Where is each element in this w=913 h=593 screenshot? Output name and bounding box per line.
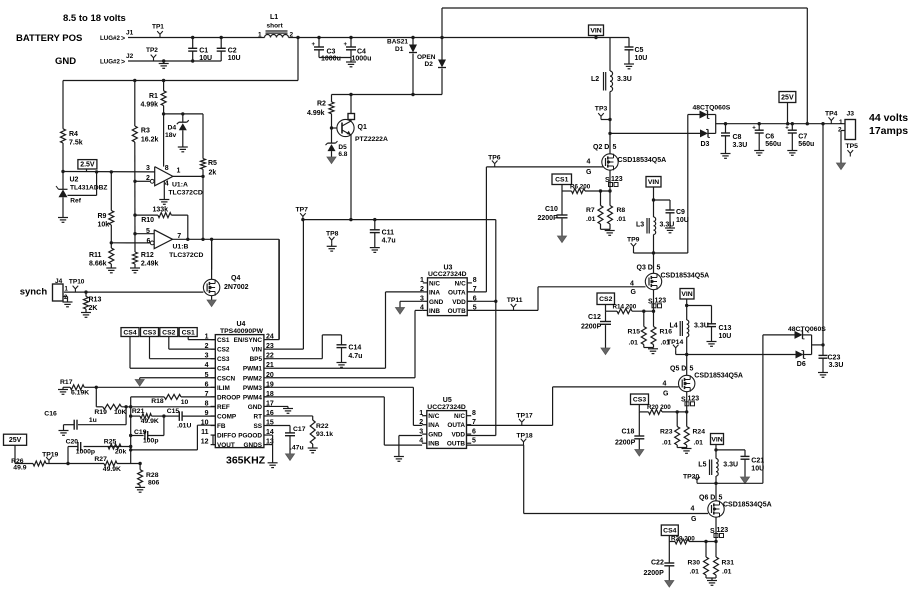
svg-text:.47u: .47u	[290, 445, 304, 452]
svg-text:4.99k: 4.99k	[307, 110, 325, 117]
svg-text:560u: 560u	[798, 141, 814, 148]
svg-text:25V: 25V	[9, 437, 22, 444]
svg-text:10: 10	[181, 399, 189, 406]
svg-text:R14 200: R14 200	[613, 304, 637, 311]
svg-text:48CTQ060S: 48CTQ060S	[788, 326, 826, 333]
svg-text:C17: C17	[293, 426, 306, 433]
svg-text:18v: 18v	[165, 132, 177, 139]
svg-text:G: G	[691, 516, 697, 523]
svg-text:49.9K: 49.9K	[141, 418, 159, 425]
svg-text:TP8: TP8	[326, 231, 339, 238]
svg-text:CS3: CS3	[143, 329, 156, 336]
svg-text:3: 3	[146, 165, 150, 172]
svg-text:C4: C4	[357, 49, 366, 56]
svg-text:RT: RT	[253, 413, 262, 420]
svg-text:Q6 D: Q6 D	[699, 495, 715, 502]
svg-text:VIN: VIN	[251, 347, 262, 354]
svg-text:J1: J1	[126, 30, 134, 37]
svg-text:R2: R2	[317, 100, 326, 107]
svg-text:+: +	[344, 42, 348, 48]
svg-text:INA: INA	[428, 422, 439, 429]
svg-text:C15: C15	[167, 408, 180, 415]
svg-text:TP17: TP17	[516, 413, 532, 420]
svg-text:10U: 10U	[751, 466, 764, 473]
svg-text:C16: C16	[44, 411, 57, 418]
svg-text:SS: SS	[253, 423, 262, 430]
svg-text:4.99k: 4.99k	[141, 102, 159, 109]
svg-text:3.3U: 3.3U	[660, 222, 675, 229]
svg-text:4.7u: 4.7u	[348, 353, 362, 360]
svg-text:TPS40090PW: TPS40090PW	[220, 328, 264, 335]
svg-text:R11: R11	[89, 252, 102, 259]
svg-text:.01U: .01U	[177, 423, 191, 430]
svg-text:3.3U: 3.3U	[829, 362, 844, 369]
svg-text:C5: C5	[635, 47, 644, 54]
svg-text:100p: 100p	[143, 438, 159, 445]
svg-text:8: 8	[473, 277, 477, 284]
svg-text:6.8: 6.8	[338, 151, 347, 158]
svg-text:N/C: N/C	[455, 280, 466, 287]
svg-text:+: +	[752, 126, 756, 132]
svg-text:TP19: TP19	[42, 451, 58, 458]
svg-text:GND: GND	[429, 299, 444, 306]
svg-text:U4: U4	[237, 321, 246, 328]
svg-text:D5: D5	[338, 144, 347, 151]
svg-text:5: 5	[472, 437, 476, 444]
svg-text:10U: 10U	[228, 55, 241, 62]
svg-text:BATTERY POS: BATTERY POS	[16, 33, 82, 44]
svg-text:.01: .01	[629, 340, 639, 347]
svg-text:R29 200: R29 200	[671, 535, 695, 542]
svg-text:2k: 2k	[209, 170, 217, 177]
svg-text:TP14: TP14	[667, 339, 683, 346]
svg-text:TP9: TP9	[627, 237, 640, 244]
svg-text:2.5V: 2.5V	[80, 162, 95, 169]
svg-text:4: 4	[630, 281, 634, 288]
svg-text:R25: R25	[104, 438, 117, 445]
svg-text:R22: R22	[316, 423, 329, 430]
svg-text:8.66k: 8.66k	[89, 261, 107, 268]
svg-text:.01: .01	[690, 569, 700, 576]
svg-text:VIN: VIN	[711, 436, 722, 443]
svg-text:3.3U: 3.3U	[733, 142, 748, 149]
svg-text:R4: R4	[69, 131, 78, 138]
svg-text:R24: R24	[693, 429, 706, 436]
svg-text:49.9K: 49.9K	[103, 466, 121, 473]
svg-text:R7: R7	[586, 207, 595, 214]
svg-text:2200P: 2200P	[538, 215, 559, 222]
svg-text:R23: R23	[660, 429, 673, 436]
svg-text:+: +	[312, 42, 316, 48]
svg-text:6: 6	[472, 428, 476, 435]
svg-text:CSD18534Q5A: CSD18534Q5A	[661, 273, 710, 280]
svg-text:44 volts: 44 volts	[869, 112, 908, 124]
svg-text:1: 1	[420, 277, 424, 284]
svg-text:123: 123	[717, 527, 729, 534]
svg-text:R16: R16	[660, 329, 673, 336]
svg-text:Q1: Q1	[358, 124, 367, 131]
svg-text:VOUT: VOUT	[217, 442, 235, 449]
svg-text:.01: .01	[586, 216, 596, 223]
svg-text:1000p: 1000p	[76, 449, 95, 456]
svg-text:L3: L3	[636, 222, 644, 229]
svg-text:L2: L2	[591, 76, 599, 83]
svg-text:1: 1	[177, 168, 181, 175]
svg-text:G: G	[631, 289, 637, 296]
svg-text:DIFFO: DIFFO	[217, 433, 236, 440]
svg-text:OPEN: OPEN	[417, 54, 436, 61]
svg-text:C14: C14	[348, 345, 361, 352]
svg-text:.01: .01	[662, 440, 672, 447]
svg-text:U1:A: U1:A	[172, 181, 188, 188]
svg-text:TP1: TP1	[152, 24, 164, 31]
svg-text:C22: C22	[651, 560, 664, 567]
svg-text:CSD18534Q5A: CSD18534Q5A	[618, 157, 667, 164]
svg-text:OUTA: OUTA	[448, 289, 466, 296]
svg-text:COMP: COMP	[217, 413, 237, 420]
svg-text:VDD: VDD	[452, 432, 466, 439]
svg-text:OUTB: OUTB	[448, 308, 466, 315]
svg-text:7.5k: 7.5k	[69, 140, 83, 147]
svg-text:10U: 10U	[676, 217, 689, 224]
svg-text:EN/SYNC: EN/SYNC	[234, 337, 263, 344]
svg-text:C19: C19	[134, 429, 147, 436]
svg-text:ILIM: ILIM	[217, 385, 230, 392]
svg-text:D2: D2	[425, 61, 434, 68]
svg-text:C3: C3	[327, 49, 336, 56]
svg-text:2200P: 2200P	[581, 324, 602, 331]
svg-text:synch: synch	[20, 286, 48, 297]
svg-text:1u: 1u	[89, 417, 97, 424]
svg-text:PTZ2222A: PTZ2222A	[355, 136, 388, 143]
svg-text:3.3U: 3.3U	[694, 323, 709, 330]
svg-text:U1:B: U1:B	[173, 244, 189, 251]
svg-text:Q4: Q4	[231, 275, 240, 282]
svg-text:BAS21: BAS21	[387, 39, 408, 46]
svg-text:R5: R5	[208, 160, 217, 167]
svg-text:16.2k: 16.2k	[141, 137, 159, 144]
svg-text:CS4: CS4	[217, 366, 230, 373]
svg-text:2.49k: 2.49k	[141, 261, 159, 268]
svg-text:INA: INA	[429, 289, 440, 296]
svg-text:UCC27324D: UCC27324D	[428, 271, 467, 278]
svg-text:CSD18534Q5A: CSD18534Q5A	[694, 373, 743, 380]
svg-text:LUG#2: LUG#2	[100, 35, 121, 42]
svg-text:8: 8	[165, 165, 169, 172]
svg-text:10U: 10U	[719, 333, 732, 340]
svg-text:5: 5	[613, 144, 617, 151]
svg-text:4.7u: 4.7u	[382, 238, 396, 245]
svg-text:8: 8	[472, 410, 476, 417]
svg-text:D4: D4	[168, 125, 177, 132]
svg-text:G: G	[586, 169, 592, 176]
svg-text:R30: R30	[688, 560, 701, 567]
svg-text:CSCN: CSCN	[217, 375, 235, 382]
svg-text:>: >	[121, 36, 125, 43]
svg-text:L1: L1	[270, 14, 278, 21]
svg-text:10k: 10k	[98, 222, 110, 229]
svg-text:1000u: 1000u	[321, 56, 341, 63]
svg-text:D3: D3	[701, 141, 710, 148]
svg-text:D6: D6	[797, 361, 806, 368]
svg-text:1: 1	[419, 410, 423, 417]
svg-text:N/C: N/C	[428, 413, 439, 420]
svg-text:10K: 10K	[114, 409, 127, 416]
svg-text:2K: 2K	[89, 305, 98, 312]
svg-text:PWM3: PWM3	[243, 385, 263, 392]
svg-text:10U: 10U	[635, 55, 648, 62]
svg-text:4: 4	[419, 437, 423, 444]
svg-text:TP10: TP10	[69, 279, 85, 286]
svg-text:4: 4	[663, 380, 667, 387]
svg-text:VIN: VIN	[590, 28, 601, 35]
svg-text:TP18: TP18	[516, 433, 532, 440]
svg-text:TP5: TP5	[846, 143, 859, 150]
svg-text:CS4: CS4	[123, 329, 136, 336]
svg-text:2200P: 2200P	[644, 570, 665, 577]
svg-text:G: G	[663, 391, 669, 398]
svg-text:OUTA: OUTA	[447, 422, 465, 429]
svg-text:TP6: TP6	[488, 154, 501, 161]
svg-text:R1: R1	[149, 93, 158, 100]
svg-text:INB: INB	[428, 441, 439, 448]
svg-text:Ref: Ref	[70, 198, 81, 205]
svg-text:PWM2: PWM2	[243, 375, 263, 382]
svg-text:TP11: TP11	[507, 297, 523, 304]
svg-text:U2: U2	[70, 177, 79, 184]
svg-text:R8: R8	[617, 207, 626, 214]
svg-text:CS2: CS2	[599, 296, 612, 303]
svg-text:5: 5	[690, 366, 694, 373]
svg-text:TP2: TP2	[146, 47, 158, 54]
svg-text:365KHZ: 365KHZ	[226, 455, 266, 467]
svg-text:BP5: BP5	[250, 356, 263, 363]
svg-text:12: 12	[201, 439, 209, 446]
svg-text:CS1: CS1	[182, 329, 195, 336]
svg-text:6: 6	[147, 238, 151, 245]
svg-text:3.3U: 3.3U	[723, 462, 738, 469]
svg-text:806: 806	[148, 480, 160, 487]
svg-text:R9: R9	[98, 213, 107, 220]
svg-text:REF: REF	[217, 404, 230, 411]
svg-text:49.9: 49.9	[13, 465, 26, 472]
svg-text:OUTB: OUTB	[447, 441, 465, 448]
svg-text:R28: R28	[146, 472, 159, 479]
svg-text:R19: R19	[94, 409, 107, 416]
svg-text:R27: R27	[94, 456, 107, 463]
svg-text:+: +	[785, 126, 789, 132]
svg-text:FB: FB	[217, 423, 226, 430]
svg-text:.01: .01	[617, 216, 627, 223]
svg-text:C1: C1	[199, 48, 208, 55]
svg-text:4: 4	[587, 159, 591, 166]
svg-text:48CTQ060S: 48CTQ060S	[693, 105, 731, 112]
svg-text:>: >	[121, 59, 125, 66]
svg-text:C11: C11	[382, 230, 395, 237]
svg-text:C9: C9	[676, 209, 685, 216]
svg-text:L5: L5	[698, 462, 706, 469]
svg-text:VIN: VIN	[648, 179, 659, 186]
svg-text:6.19K: 6.19K	[71, 390, 89, 397]
svg-text:Q5 D: Q5 D	[670, 366, 686, 373]
svg-text:TP4: TP4	[825, 111, 838, 118]
svg-text:5: 5	[657, 265, 661, 272]
svg-text:560u: 560u	[765, 141, 781, 148]
svg-text:GNDS: GNDS	[244, 442, 263, 449]
svg-text:2N7002: 2N7002	[224, 284, 249, 291]
svg-text:1: 1	[839, 119, 843, 126]
svg-text:CSD18534Q5A: CSD18534Q5A	[723, 502, 772, 509]
svg-text:4: 4	[165, 180, 169, 187]
svg-text:R17: R17	[60, 379, 73, 386]
svg-text:1: 1	[258, 32, 262, 39]
svg-text:R3: R3	[141, 128, 150, 135]
svg-text:.01: .01	[722, 569, 732, 576]
svg-text:PGOOD: PGOOD	[238, 433, 262, 440]
svg-text:TP3: TP3	[595, 106, 608, 113]
svg-text:8.5 to 18 volts: 8.5 to 18 volts	[63, 13, 126, 24]
svg-text:93.1k: 93.1k	[316, 431, 333, 438]
svg-text:CS3: CS3	[217, 356, 230, 363]
svg-text:C10: C10	[545, 206, 558, 213]
svg-text:C20: C20	[66, 438, 79, 445]
svg-text:N/C: N/C	[454, 413, 465, 420]
svg-text:LUG#2: LUG#2	[100, 59, 121, 66]
svg-text:J2: J2	[126, 53, 134, 60]
svg-text:GND: GND	[428, 432, 443, 439]
svg-text:INB: INB	[429, 308, 440, 315]
svg-text:DROOP: DROOP	[217, 394, 241, 401]
svg-text:3: 3	[419, 428, 423, 435]
svg-text:R21: R21	[132, 408, 145, 415]
svg-text:GND: GND	[248, 404, 263, 411]
svg-text:R6 200: R6 200	[570, 184, 591, 191]
svg-text:C13: C13	[719, 325, 732, 332]
svg-text:TLC372CD: TLC372CD	[169, 252, 203, 259]
svg-text:C23: C23	[828, 355, 841, 362]
svg-text:J4: J4	[55, 278, 63, 285]
svg-text:Q2 D: Q2 D	[593, 144, 609, 151]
svg-text:CS3: CS3	[633, 397, 646, 404]
svg-text:TL431ADBZ: TL431ADBZ	[70, 185, 107, 192]
svg-text:R13: R13	[89, 297, 102, 304]
svg-text:VDD: VDD	[452, 299, 466, 306]
svg-text:UCC27324D: UCC27324D	[427, 404, 466, 411]
svg-text:TLC372CD: TLC372CD	[168, 190, 202, 197]
svg-text:C7: C7	[798, 134, 807, 141]
svg-text:20k: 20k	[115, 449, 127, 456]
svg-text:CS1: CS1	[217, 337, 230, 344]
svg-text:4: 4	[691, 506, 695, 513]
svg-text:short: short	[267, 23, 284, 30]
svg-text:10U: 10U	[199, 55, 212, 62]
svg-text:CS1: CS1	[555, 177, 568, 184]
svg-text:L4: L4	[670, 323, 678, 330]
svg-text:C12: C12	[588, 314, 601, 321]
svg-text:123: 123	[611, 176, 623, 183]
svg-text:25V: 25V	[781, 94, 794, 101]
svg-text:TP7: TP7	[296, 207, 309, 214]
svg-text:R15: R15	[628, 329, 641, 336]
svg-text:PWM4: PWM4	[243, 394, 263, 401]
svg-text:PWM1: PWM1	[243, 366, 263, 373]
svg-text:2200P: 2200P	[615, 440, 636, 447]
svg-text:133k: 133k	[153, 207, 169, 214]
svg-text:R31: R31	[722, 560, 735, 567]
svg-text:2: 2	[290, 32, 294, 39]
svg-text:3.3U: 3.3U	[617, 76, 632, 83]
svg-text:Q3 D: Q3 D	[637, 265, 653, 272]
svg-text:C6: C6	[765, 134, 774, 141]
svg-text:CS2: CS2	[217, 347, 230, 354]
svg-text:CS4: CS4	[663, 528, 676, 535]
svg-text:C8: C8	[733, 134, 742, 141]
svg-text:5: 5	[719, 495, 723, 502]
svg-text:C2: C2	[228, 48, 237, 55]
svg-text:VIN: VIN	[681, 291, 692, 298]
svg-text:D1: D1	[395, 46, 404, 53]
svg-text:R20 200: R20 200	[647, 404, 671, 411]
svg-text:R18: R18	[151, 398, 164, 405]
svg-text:C18: C18	[622, 429, 635, 436]
svg-text:11: 11	[201, 429, 209, 436]
svg-text:GND: GND	[55, 56, 76, 67]
svg-text:J3: J3	[847, 111, 855, 118]
svg-text:17amps: 17amps	[869, 125, 908, 137]
svg-text:R12: R12	[141, 252, 154, 259]
svg-text:CS2: CS2	[162, 329, 175, 336]
svg-text:.01: .01	[694, 440, 704, 447]
svg-text:N/C: N/C	[429, 280, 440, 287]
svg-text:R10: R10	[141, 217, 154, 224]
